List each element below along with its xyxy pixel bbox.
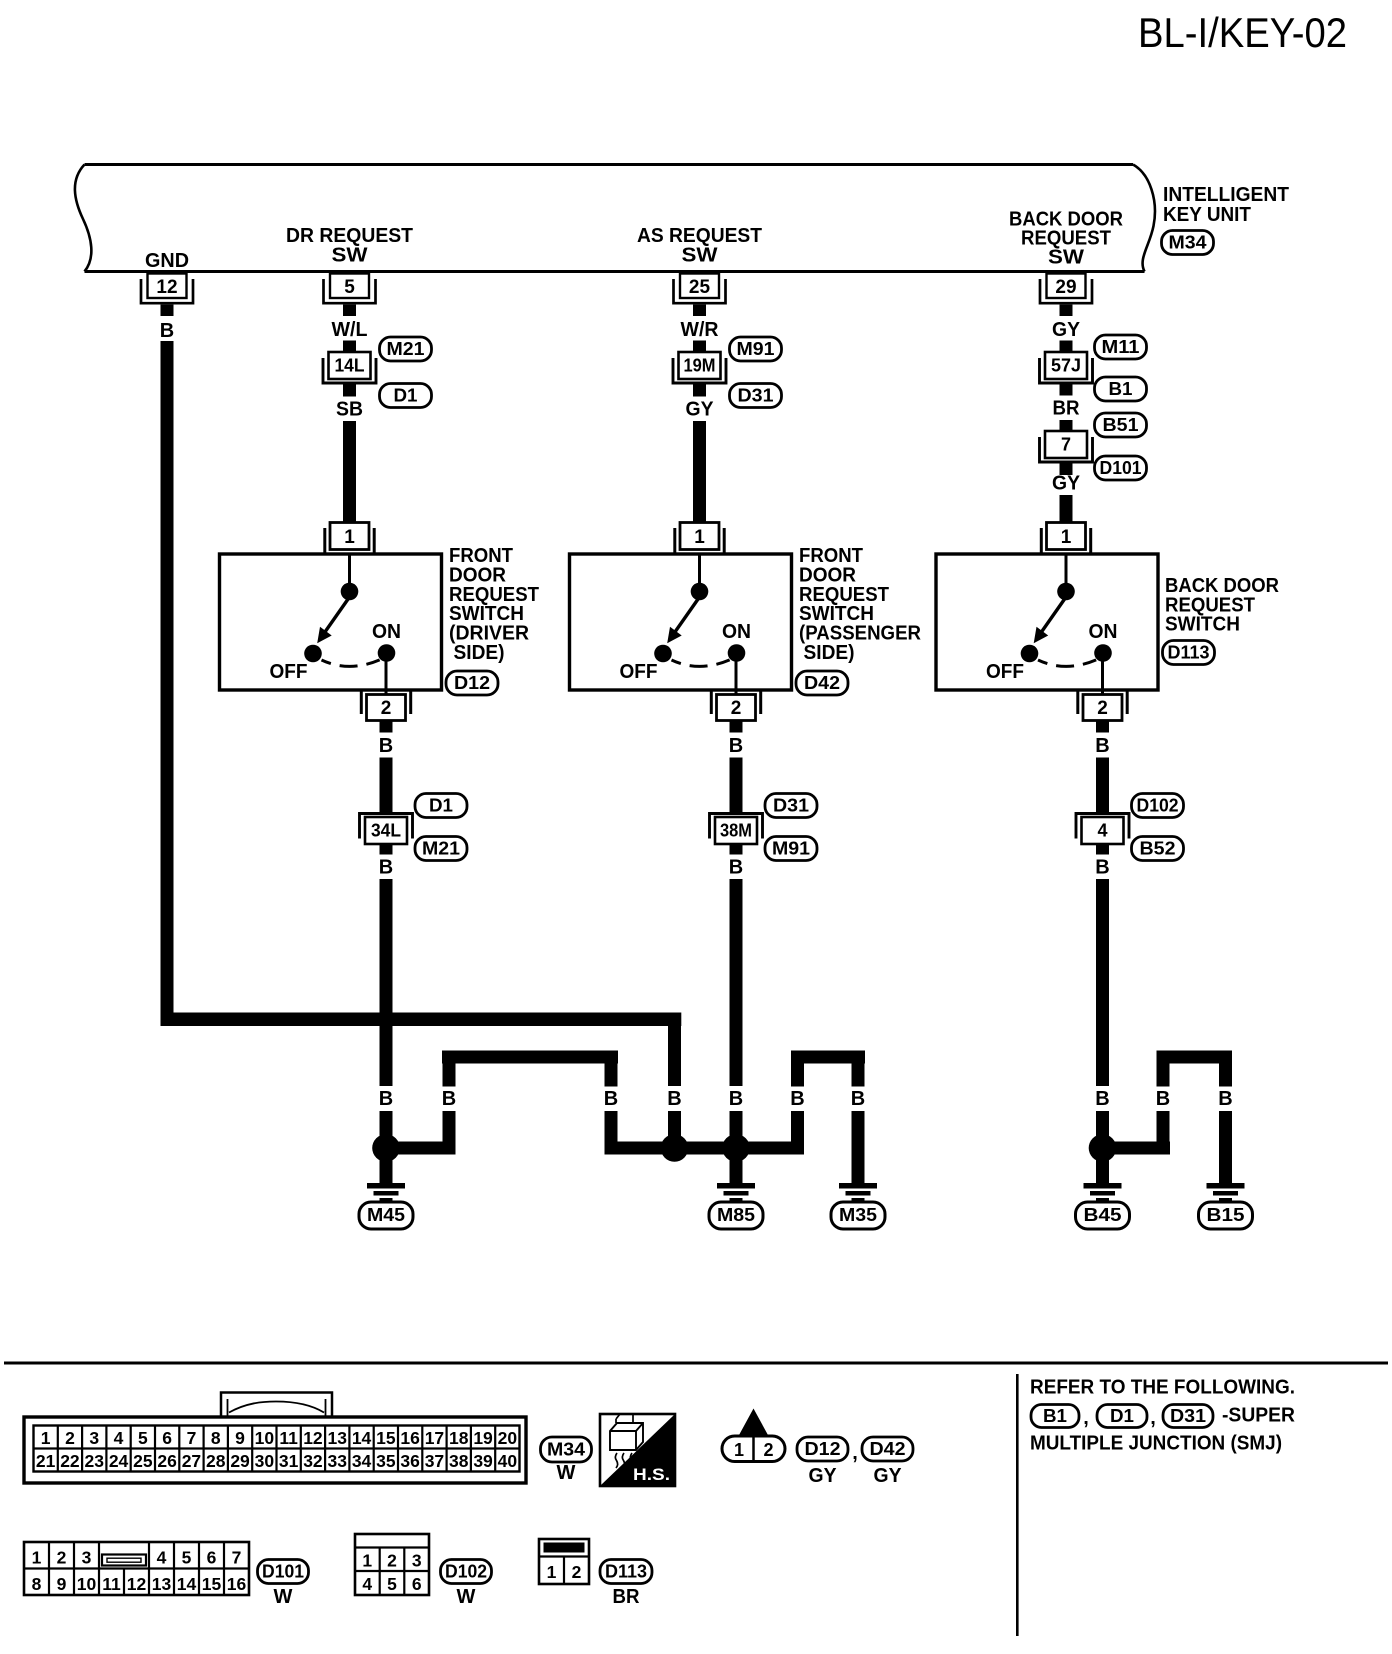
svg-text:7: 7 xyxy=(1061,435,1071,455)
ON contact xyxy=(378,644,396,662)
svg-text:12: 12 xyxy=(303,1428,323,1448)
svg-text:13: 13 xyxy=(328,1428,348,1448)
svg-text:B: B xyxy=(379,735,393,757)
svg-text:1: 1 xyxy=(734,1440,744,1460)
switch arm with arrowhead xyxy=(323,597,350,636)
svg-text:57J: 57J xyxy=(1051,356,1081,376)
svg-text:11: 11 xyxy=(102,1574,121,1594)
connector tag D113 xyxy=(600,1560,652,1584)
front door request switch (passenger side) box xyxy=(570,554,792,690)
svg-text:B15: B15 xyxy=(1207,1205,1245,1225)
svg-text:B: B xyxy=(1095,857,1109,879)
svg-text:1: 1 xyxy=(32,1548,42,1568)
svg-text:11: 11 xyxy=(279,1428,298,1448)
wire xyxy=(343,341,356,353)
svg-text:,: , xyxy=(1083,1407,1089,1429)
svg-text:B51: B51 xyxy=(1103,415,1139,435)
front door request switch (driver side) box xyxy=(220,554,442,690)
svg-text:SIDE): SIDE) xyxy=(454,642,505,664)
svg-text:B1: B1 xyxy=(1109,379,1133,399)
svg-text:28: 28 xyxy=(206,1451,226,1471)
inline connector 34L xyxy=(360,814,413,855)
label FRONT DOOR REQUEST SWITCH (PASSENGER SIDE) xyxy=(799,545,922,664)
connector tag D102 xyxy=(1132,794,1184,818)
wire xyxy=(343,385,356,397)
wire from ON contact to pin 2 xyxy=(385,653,388,694)
svg-text:21: 21 xyxy=(36,1451,56,1471)
svg-text:B: B xyxy=(790,1088,804,1110)
svg-text:22: 22 xyxy=(60,1451,80,1471)
svg-text:29: 29 xyxy=(230,1451,250,1471)
divider for reference note xyxy=(1016,1374,1019,1636)
wire xyxy=(1060,464,1073,476)
back door request switch box xyxy=(936,554,1158,690)
label BACK DOOR REQUEST SWITCH xyxy=(1165,575,1280,636)
svg-text:2: 2 xyxy=(65,1428,75,1448)
inline connector 14L xyxy=(323,352,376,383)
pin 2 front door request switch passenger side xyxy=(711,692,760,733)
svg-text:D31: D31 xyxy=(738,386,774,406)
svg-text:4: 4 xyxy=(114,1428,124,1448)
svg-text:2: 2 xyxy=(731,698,742,719)
wire stub up to B15 bridge xyxy=(1157,1061,1170,1143)
connector tag M21 xyxy=(380,337,432,361)
wire xyxy=(698,554,701,585)
wire stub down to M35 xyxy=(852,1061,865,1087)
inline connector 57J xyxy=(1040,352,1093,383)
label FRONT DOOR REQUEST SWITCH (DRIVER SIDE) xyxy=(449,545,539,664)
connector tag M91 xyxy=(730,337,782,361)
svg-text:D31: D31 xyxy=(1170,1406,1206,1426)
wire xyxy=(693,341,706,353)
svg-text:M11: M11 xyxy=(1102,337,1140,357)
svg-text:18: 18 xyxy=(449,1428,469,1448)
svg-text:40: 40 xyxy=(498,1451,518,1471)
pin 1 front door request switch passenger side xyxy=(675,523,724,554)
wire xyxy=(1060,341,1073,353)
svg-text:D102: D102 xyxy=(445,1562,487,1582)
connector tag D101 xyxy=(258,1560,309,1584)
pin label AS REQUEST SW xyxy=(637,225,762,267)
pin 5 (DR REQUEST SW) xyxy=(324,274,376,317)
svg-text:24: 24 xyxy=(109,1451,129,1471)
svg-text:ON: ON xyxy=(1089,621,1118,643)
svg-text:2: 2 xyxy=(387,1551,397,1571)
wire xyxy=(693,421,706,523)
wire xyxy=(1060,385,1073,396)
svg-text:2: 2 xyxy=(763,1440,773,1460)
svg-text:10: 10 xyxy=(77,1574,97,1594)
svg-text:3: 3 xyxy=(89,1428,99,1448)
svg-text:INTELLIGENT: INTELLIGENT xyxy=(1163,184,1289,206)
switch arm with arrowhead xyxy=(673,597,700,636)
svg-text:16: 16 xyxy=(227,1574,247,1594)
svg-text:6: 6 xyxy=(412,1574,422,1594)
svg-text:D102: D102 xyxy=(1137,796,1179,816)
junction dot (GND drop) xyxy=(661,1134,689,1162)
pin 2 back door request switch xyxy=(1078,692,1127,733)
svg-text:M35: M35 xyxy=(839,1205,877,1225)
svg-text:5: 5 xyxy=(387,1574,397,1594)
svg-text:8: 8 xyxy=(211,1428,221,1448)
switch common contact xyxy=(691,583,709,601)
wire xyxy=(1096,1111,1109,1142)
svg-text:B: B xyxy=(729,735,743,757)
svg-text:D42: D42 xyxy=(804,673,840,693)
wire GND drop lower part xyxy=(668,1111,681,1142)
svg-text:,: , xyxy=(852,1442,858,1464)
svg-text:SW: SW xyxy=(682,245,718,267)
inline connector 7 xyxy=(1040,431,1093,462)
svg-text:,: , xyxy=(1150,1407,1156,1429)
connector tag D42 xyxy=(796,671,848,695)
connector D102 pinout (6 pin) xyxy=(355,1534,429,1595)
svg-text:5: 5 xyxy=(182,1548,192,1568)
svg-text:7: 7 xyxy=(187,1428,197,1448)
svg-text:5: 5 xyxy=(138,1428,148,1448)
svg-text:W: W xyxy=(457,1586,476,1608)
svg-text:32: 32 xyxy=(303,1451,323,1471)
wire stub up to M35 bridge xyxy=(791,1061,804,1143)
wire between junction dots xyxy=(668,1142,743,1155)
svg-text:OFF: OFF xyxy=(986,661,1024,683)
svg-text:29: 29 xyxy=(1055,277,1076,298)
svg-text:B: B xyxy=(1218,1088,1232,1110)
svg-text:38M: 38M xyxy=(720,821,752,841)
svg-text:4: 4 xyxy=(1097,821,1107,841)
wire down to B15 ground xyxy=(1219,1111,1232,1183)
svg-text:16: 16 xyxy=(400,1428,420,1448)
OFF contact xyxy=(1021,645,1039,663)
connector tag D31 (SMJ) xyxy=(1163,1405,1213,1428)
wire stub right of bridge xyxy=(605,1061,618,1143)
switch common contact xyxy=(341,583,359,601)
svg-text:D113: D113 xyxy=(605,1562,647,1582)
pin 1 front door request switch driver side xyxy=(325,523,374,554)
svg-text:B: B xyxy=(604,1088,618,1110)
ON contact xyxy=(728,644,746,662)
intelligent key unit M34 box (torn-edge outline) xyxy=(75,165,1155,272)
svg-text:GY: GY xyxy=(874,1465,903,1487)
svg-text:W/R: W/R xyxy=(681,319,720,341)
connector M34 pinout (40 pin) xyxy=(24,1393,526,1484)
svg-text:13: 13 xyxy=(152,1574,172,1594)
svg-text:BR: BR xyxy=(613,1586,641,1608)
junction dot (M85) xyxy=(722,1134,750,1162)
svg-text:9: 9 xyxy=(57,1574,67,1594)
svg-text:B: B xyxy=(1095,735,1109,757)
wire xyxy=(1096,879,1109,1086)
svg-text:B: B xyxy=(1156,1088,1170,1110)
connector tag D1 (SMJ) xyxy=(1097,1405,1147,1428)
connector tag M34 xyxy=(1162,231,1214,255)
connector tag D31 xyxy=(765,794,817,818)
wire junction to B15 branch xyxy=(1096,1142,1170,1155)
svg-text:D113: D113 xyxy=(1168,643,1210,663)
svg-text:SW: SW xyxy=(1048,247,1084,269)
svg-text:D12: D12 xyxy=(454,673,490,693)
connector tag M34 (pinout) xyxy=(541,1437,592,1462)
wire xyxy=(693,385,706,397)
connector D101 pinout (16 pin) xyxy=(24,1542,249,1595)
svg-text:1: 1 xyxy=(547,1562,557,1582)
connector tag D31 xyxy=(730,384,782,408)
svg-text:D31: D31 xyxy=(773,796,809,816)
svg-text:27: 27 xyxy=(182,1451,201,1471)
ground M45 xyxy=(359,1148,413,1229)
svg-text:31: 31 xyxy=(279,1451,299,1471)
pin 12 (GND) xyxy=(141,274,193,317)
svg-text:GY: GY xyxy=(1052,319,1081,341)
svg-text:W: W xyxy=(557,1462,576,1484)
connector tag D113 xyxy=(1163,641,1215,665)
svg-text:M34: M34 xyxy=(1169,233,1207,253)
svg-text:39: 39 xyxy=(473,1451,493,1471)
wire xyxy=(1060,420,1073,431)
svg-text:SB: SB xyxy=(336,399,363,421)
svg-text:BL-I/KEY-02: BL-I/KEY-02 xyxy=(1138,9,1347,56)
svg-text:34L: 34L xyxy=(371,821,401,841)
connector tag M21 xyxy=(415,837,467,861)
svg-text:6: 6 xyxy=(162,1428,172,1448)
svg-text:33: 33 xyxy=(328,1451,348,1471)
svg-text:1: 1 xyxy=(362,1551,372,1571)
svg-text:M91: M91 xyxy=(772,839,810,859)
svg-text:37: 37 xyxy=(425,1451,444,1471)
svg-text:SWITCH: SWITCH xyxy=(1165,614,1240,636)
svg-text:23: 23 xyxy=(85,1451,105,1471)
svg-text:15: 15 xyxy=(202,1574,222,1594)
svg-text:M34: M34 xyxy=(547,1440,585,1460)
ON contact xyxy=(1094,644,1112,662)
svg-text:GY: GY xyxy=(1052,473,1081,495)
wire stub left of bridge xyxy=(443,1061,456,1143)
junction dot (B45) xyxy=(1089,1134,1117,1162)
label INTELLIGENT KEY UNIT xyxy=(1163,184,1289,226)
switch arm with arrowhead xyxy=(1039,597,1066,636)
svg-text:M91: M91 xyxy=(737,339,775,359)
wire bridge to M35 xyxy=(791,1051,865,1064)
svg-text:D1: D1 xyxy=(1110,1406,1134,1426)
svg-text:14: 14 xyxy=(352,1428,372,1448)
svg-text:5: 5 xyxy=(344,277,355,298)
wire down to M35 ground xyxy=(852,1111,865,1183)
svg-text:35: 35 xyxy=(376,1451,396,1471)
svg-text:1: 1 xyxy=(1061,527,1072,548)
connector tag B51 xyxy=(1095,413,1147,437)
wire junction to M35 branch xyxy=(730,1142,805,1155)
wire xyxy=(730,1111,743,1142)
svg-text:B: B xyxy=(729,1088,743,1110)
connector tag B1 (SMJ) xyxy=(1031,1405,1079,1428)
ground M35 xyxy=(831,1148,885,1229)
pin 1 back door request switch xyxy=(1041,523,1090,554)
svg-text:1: 1 xyxy=(344,527,355,548)
svg-text:15: 15 xyxy=(376,1428,396,1448)
ground B45 xyxy=(1076,1148,1130,1229)
wire xyxy=(1060,495,1073,523)
svg-text:KEY UNIT: KEY UNIT xyxy=(1163,204,1251,226)
svg-text:B: B xyxy=(851,1088,865,1110)
svg-text:D1: D1 xyxy=(394,386,418,406)
svg-text:14L: 14L xyxy=(335,356,365,376)
wire bridge to B15 xyxy=(1157,1051,1233,1064)
svg-text:D12: D12 xyxy=(805,1439,841,1459)
svg-text:34: 34 xyxy=(352,1451,372,1471)
wire to junction near M85 xyxy=(605,1142,682,1155)
wire xyxy=(730,758,743,813)
svg-text:19M: 19M xyxy=(684,356,716,376)
svg-text:3: 3 xyxy=(82,1548,92,1568)
wire from ON contact to pin 2 xyxy=(1101,653,1104,694)
svg-text:B45: B45 xyxy=(1084,1205,1122,1225)
svg-text:6: 6 xyxy=(207,1548,217,1568)
junction dot (M45) xyxy=(372,1134,400,1162)
wire xyxy=(380,1111,393,1142)
svg-text:4: 4 xyxy=(362,1574,372,1594)
svg-text:B1: B1 xyxy=(1043,1406,1067,1426)
svg-text:26: 26 xyxy=(157,1451,177,1471)
inline connector 19M xyxy=(673,352,726,383)
switch common contact xyxy=(1057,583,1075,601)
connector tag M11 xyxy=(1095,335,1147,359)
OFF contact xyxy=(654,645,672,663)
pin 2 front door request switch driver side xyxy=(361,692,410,733)
svg-text:30: 30 xyxy=(255,1451,275,1471)
svg-text:SIDE): SIDE) xyxy=(804,642,855,664)
svg-text:W: W xyxy=(274,1586,293,1608)
wire xyxy=(380,879,393,1086)
pin label BACK DOOR REQUEST SW xyxy=(1009,209,1124,269)
svg-text:1: 1 xyxy=(41,1428,51,1448)
svg-text:10: 10 xyxy=(255,1428,275,1448)
wire GND: pin 12 down, right, to ground junction xyxy=(161,341,682,1086)
OFF contact xyxy=(304,645,322,663)
connector tag D1 xyxy=(380,384,432,408)
svg-text:1: 1 xyxy=(694,527,705,548)
svg-text:B: B xyxy=(1095,1088,1109,1110)
inline connector 4 xyxy=(1076,814,1129,855)
dashed travel arc xyxy=(672,660,731,667)
connector tag D102 xyxy=(441,1560,492,1584)
svg-text:17: 17 xyxy=(425,1428,444,1448)
connector tag M91 xyxy=(765,837,817,861)
svg-text:B: B xyxy=(160,320,174,342)
svg-text:GND: GND xyxy=(145,250,189,272)
svg-text:2: 2 xyxy=(57,1548,67,1568)
wire xyxy=(343,421,356,523)
wire xyxy=(1096,758,1109,813)
svg-text:19: 19 xyxy=(473,1428,493,1448)
svg-text:SW: SW xyxy=(332,245,368,267)
svg-text:14: 14 xyxy=(177,1574,197,1594)
svg-text:12: 12 xyxy=(156,277,177,298)
svg-text:D101: D101 xyxy=(1100,458,1142,478)
wire xyxy=(730,879,743,1086)
wire stub down to B15 xyxy=(1219,1061,1232,1087)
svg-text:M21: M21 xyxy=(422,839,460,859)
connector tag D12 xyxy=(797,1437,848,1461)
connector D113 pinout (2 pin) xyxy=(539,1539,589,1584)
connector tag B52 xyxy=(1132,837,1184,861)
pin label DR REQUEST SW xyxy=(286,225,413,267)
svg-text:7: 7 xyxy=(232,1548,242,1568)
svg-text:B: B xyxy=(729,857,743,879)
wire xyxy=(380,758,393,813)
svg-text:38: 38 xyxy=(449,1451,469,1471)
svg-text:4: 4 xyxy=(157,1548,167,1568)
wire from ON contact to pin 2 xyxy=(735,653,738,694)
ground B15 xyxy=(1199,1148,1253,1229)
connector tag D42 xyxy=(862,1437,913,1461)
svg-text:GY: GY xyxy=(686,399,715,421)
svg-text:MULTIPLE JUNCTION (SMJ): MULTIPLE JUNCTION (SMJ) xyxy=(1030,1433,1282,1455)
svg-text:25: 25 xyxy=(689,277,711,298)
svg-text:B: B xyxy=(442,1088,456,1110)
pin 29 (BACK DOOR REQUEST SW) xyxy=(1040,274,1092,317)
svg-text:BR: BR xyxy=(1053,398,1081,420)
wire to junction M45 xyxy=(386,1142,456,1155)
svg-text:20: 20 xyxy=(498,1428,518,1448)
svg-text:12: 12 xyxy=(127,1574,147,1594)
svg-text:D42: D42 xyxy=(870,1439,906,1459)
svg-text:W/L: W/L xyxy=(332,319,368,341)
connector tag B1 xyxy=(1095,377,1147,401)
wire bridge (B) between M45 and M85 branches xyxy=(442,1051,618,1064)
svg-text:2: 2 xyxy=(381,698,392,719)
svg-text:B: B xyxy=(379,857,393,879)
svg-text:25: 25 xyxy=(133,1451,153,1471)
pin 25 (AS REQUEST SW) xyxy=(674,274,726,317)
svg-text:3: 3 xyxy=(412,1551,422,1571)
svg-text:GY: GY xyxy=(809,1465,838,1487)
svg-text:9: 9 xyxy=(235,1428,245,1448)
svg-text:OFF: OFF xyxy=(270,661,308,683)
svg-text:B52: B52 xyxy=(1140,839,1176,859)
svg-text:8: 8 xyxy=(32,1574,42,1594)
inline connector 38M xyxy=(710,814,763,855)
H.S. (harness side) icon xyxy=(600,1414,675,1486)
connector tag D12 xyxy=(446,671,498,695)
wire xyxy=(348,554,351,585)
svg-text:2: 2 xyxy=(1097,698,1108,719)
connector tag D1 xyxy=(415,794,467,818)
svg-text:ON: ON xyxy=(722,621,751,643)
separator rule xyxy=(4,1362,1388,1365)
svg-text:M85: M85 xyxy=(717,1205,755,1225)
svg-text:M45: M45 xyxy=(367,1205,405,1225)
svg-text:REFER TO THE FOLLOWING.: REFER TO THE FOLLOWING. xyxy=(1030,1377,1295,1399)
svg-text:2: 2 xyxy=(572,1562,582,1582)
svg-text:OFF: OFF xyxy=(620,661,658,683)
ground M85 xyxy=(709,1148,763,1229)
svg-text:B: B xyxy=(667,1088,681,1110)
svg-text:-SUPER: -SUPER xyxy=(1222,1405,1296,1427)
svg-text:B: B xyxy=(379,1088,393,1110)
connector tag D101 xyxy=(1095,456,1147,480)
svg-text:36: 36 xyxy=(400,1451,420,1471)
svg-text:M21: M21 xyxy=(387,339,425,359)
svg-text:D101: D101 xyxy=(262,1562,304,1582)
svg-text:ON: ON xyxy=(372,621,401,643)
connector D12/D42 pinout (2 pin oval) xyxy=(722,1409,785,1462)
wire xyxy=(1065,554,1068,585)
dashed travel arc xyxy=(1038,660,1097,667)
svg-text:D1: D1 xyxy=(429,796,453,816)
dashed travel arc xyxy=(322,660,381,667)
